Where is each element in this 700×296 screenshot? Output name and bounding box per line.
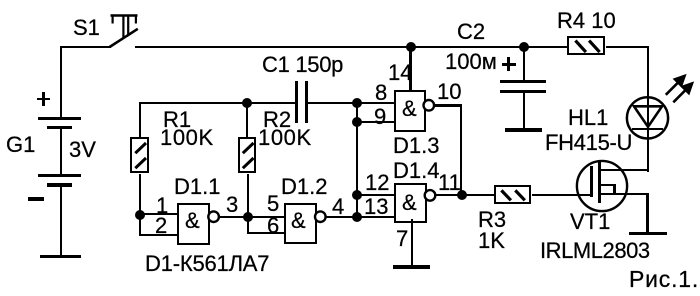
- gate D1.1 bubble: [208, 211, 219, 222]
- wire: C2 top lead: [523, 46, 525, 81]
- wire: battery minus lead down: [60, 187, 62, 256]
- label G1: [6, 134, 35, 156]
- label VT1: [570, 211, 610, 233]
- switch S1: [110, 14, 138, 47]
- label C2: [457, 21, 485, 43]
- label 100м: [445, 51, 497, 73]
- battery G1 plate long bottom: [38, 174, 81, 177]
- wire: R1 bottom lead: [139, 174, 141, 214]
- wire: pin 6 stub: [247, 232, 285, 234]
- node: bus pin12: [352, 190, 362, 200]
- label R1: [163, 109, 191, 131]
- wire: D1.4 output: [436, 194, 462, 196]
- label D1-К561ЛА7: [145, 253, 269, 275]
- label D1.4: [393, 160, 439, 182]
- battery G1 plate short top: [47, 126, 72, 130]
- capacitor C2 plate top: [500, 80, 546, 83]
- resistor R4 box: [567, 36, 605, 55]
- node: R1 / pin1: [135, 210, 145, 220]
- wire: R3 to gate: [532, 194, 591, 196]
- label C1 150p: [262, 54, 343, 76]
- wire: D1.1 wrap vertical: [139, 213, 141, 236]
- node: R2 / pin5: [243, 212, 253, 222]
- gate D1.2 bubble: [315, 211, 326, 222]
- label pin 11: [438, 172, 461, 194]
- wire: right column vertical (to LED / drain): [647, 46, 649, 172]
- oscillator: wire top line (R1 top to C1): [139, 102, 296, 104]
- label 3V: [69, 139, 96, 161]
- wire: pin 8 stub: [356, 102, 394, 104]
- resistor R3 diagonals: [501, 190, 524, 200]
- wire: R2 bottom lead: [247, 174, 249, 217]
- capacitor C2 plate bottom: [500, 90, 546, 93]
- VT1 drain tap: [599, 169, 649, 171]
- label pin 13: [364, 196, 388, 218]
- VT1 channel bar: [598, 160, 601, 203]
- LED arrows: [666, 76, 692, 102]
- node: outputs join: [457, 190, 467, 200]
- transistor VT1 internals: gate bar: [590, 166, 593, 197]
- resistor R1 box: [130, 137, 149, 173]
- label pin 12: [365, 172, 389, 194]
- capacitor C1 plate right: [305, 81, 308, 123]
- wire: source down: [646, 193, 648, 233]
- wire: input bus vertical: [356, 102, 358, 218]
- wire: top rail after R4 to corner: [606, 46, 649, 48]
- VT1 substrate tap: [599, 184, 616, 186]
- node: rail to C2: [519, 42, 529, 52]
- label pin 1: [156, 195, 168, 217]
- label R2: [263, 109, 291, 131]
- LED HL1 cathode bar: [632, 128, 663, 131]
- LED HL1 circle: [627, 97, 668, 138]
- gate D1.2 &: [291, 210, 306, 232]
- wire: top rail left segment (battery + to S1): [60, 46, 111, 48]
- wire: corner down to R1: [139, 102, 141, 138]
- label pin 5: [267, 193, 279, 215]
- wire: C2 bottom lead: [523, 93, 525, 130]
- gate D1.4 &: [402, 192, 417, 214]
- wire: D1.2 wrap vertical: [247, 216, 249, 234]
- label pin 3: [226, 194, 238, 216]
- label pin 2: [155, 215, 167, 237]
- wire: battery inter-cell: [60, 129, 62, 174]
- node: rail to pin14: [406, 42, 416, 52]
- wire: top rail right of S1: [135, 46, 568, 48]
- pin 7 ground bar: [393, 265, 430, 268]
- label pin 6: [267, 215, 279, 237]
- label pin 4: [332, 196, 344, 218]
- gate D1.3 box: [394, 90, 426, 132]
- label HL1: [568, 107, 608, 129]
- gate D1.1 &: [185, 210, 200, 232]
- VT1 source tap: [599, 193, 649, 195]
- label pin 7: [396, 228, 408, 250]
- transistor VT1 circle: [577, 161, 627, 211]
- label R4 10: [557, 10, 616, 32]
- label R2 100K: [258, 127, 312, 149]
- label R1 100K: [160, 127, 214, 149]
- label pin 10: [437, 81, 461, 103]
- wire: C1 right to bus: [308, 102, 358, 104]
- battery minus terminal bar: [40, 255, 81, 259]
- node: bus pin9: [352, 117, 362, 127]
- LED HL1 triangle: [634, 106, 662, 127]
- battery plus sign: [37, 98, 51, 101]
- wire: pin 12 stub: [356, 194, 394, 196]
- wire: D1.3 output: [435, 104, 462, 106]
- node: R2 top: [242, 98, 252, 108]
- gate D1.4 bubble: [425, 190, 436, 201]
- label pin 8: [375, 82, 387, 104]
- battery minus sign: [28, 197, 44, 200]
- label 1K: [478, 230, 505, 252]
- label pin 9: [374, 106, 386, 128]
- gate D1.4 box: [394, 183, 427, 223]
- label D1.1: [174, 176, 220, 198]
- label 14: [388, 62, 412, 84]
- wire: pin 2 stub: [139, 234, 177, 236]
- C2 plus sign: [502, 63, 516, 66]
- wire: left rail vertical (battery column top): [60, 46, 62, 118]
- wire: D1.3 to D1.4 output vertical: [460, 104, 462, 195]
- node: bus pin8: [352, 98, 362, 108]
- label S1: [73, 17, 100, 39]
- wire: pin4 to bus/pin13: [325, 216, 394, 218]
- label D1.3: [393, 135, 439, 157]
- gate D1.3 &: [402, 98, 417, 120]
- VT1 source ground bar: [629, 232, 667, 235]
- label R3: [478, 209, 506, 231]
- wire: pin 7 vertical: [411, 219, 413, 267]
- battery G1 plate short bottom: [47, 183, 72, 187]
- resistor R2 diagonals: [243, 143, 254, 168]
- gate D1.2 box: [284, 203, 318, 245]
- node: bus pin13: [352, 212, 362, 222]
- wire: pin 14 vertical: [409, 46, 411, 90]
- label IRLML2803: [540, 240, 650, 262]
- resistor R4 diagonals: [575, 41, 599, 53]
- capacitor C1 plate left: [295, 81, 298, 123]
- resistor R3 box: [494, 185, 531, 204]
- label FH415-U: [545, 132, 632, 154]
- wire: pin 1 stub: [139, 213, 177, 215]
- label D1.2: [281, 176, 327, 198]
- wire: pin 9 stub: [356, 121, 394, 123]
- wire: R2 top lead: [246, 103, 248, 138]
- gate D1.1 box: [177, 203, 211, 245]
- wire: pin3 to pin5: [218, 216, 284, 218]
- resistor R1 diagonals: [135, 143, 146, 168]
- label Рис.1.: [629, 268, 699, 291]
- wire: node to R3: [461, 194, 494, 196]
- resistor R2 box: [238, 137, 257, 173]
- gate D1.3 bubble: [424, 100, 435, 111]
- battery G1 plate long top: [38, 117, 81, 120]
- C2 minus terminal bar: [505, 128, 542, 131]
